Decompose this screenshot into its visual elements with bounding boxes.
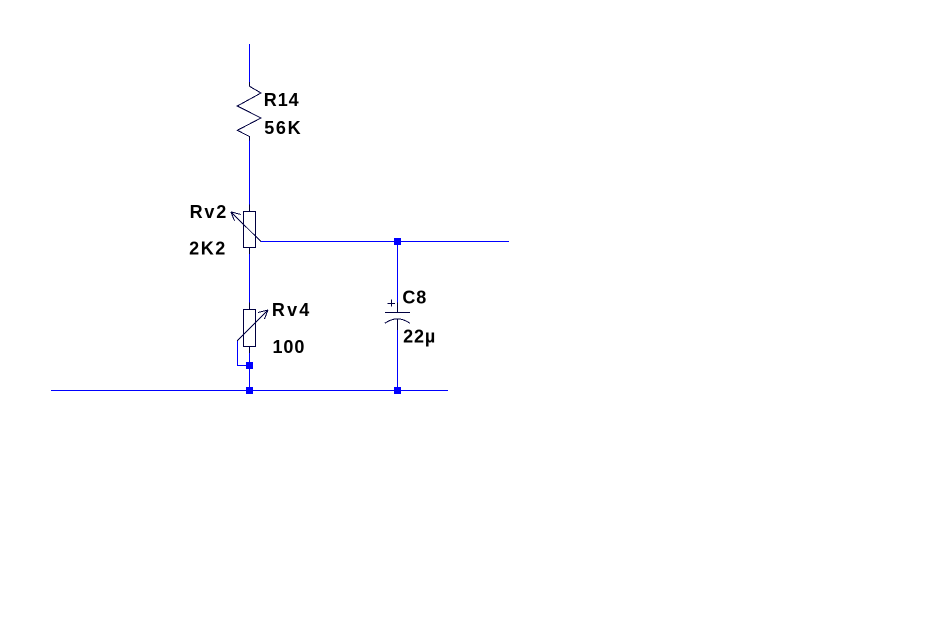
capacitor C8 bbox=[385, 300, 410, 331]
wire R14 to Rv2 bbox=[249, 141, 251, 206]
potentiometer Rv2 body bbox=[244, 212, 256, 248]
potentiometer Rv4 wiper arrow bbox=[237, 310, 268, 341]
wire wiper node horizontal bbox=[261, 241, 509, 243]
wire Rv4 bottom lead bbox=[249, 353, 251, 391]
potentiometer Rv2 wiper arrow bbox=[231, 212, 261, 242]
svg-text:R14: R14 bbox=[264, 90, 300, 110]
resistor R14 bbox=[237, 82, 261, 141]
svg-text:100: 100 bbox=[273, 337, 306, 357]
wire C8 bottom lead bbox=[397, 330, 399, 391]
node junction at C8 top bbox=[394, 238, 401, 245]
wire top feed bbox=[249, 44, 251, 83]
wire Rv2 navy leads bbox=[249, 205, 251, 255]
wire Rv2 to Rv4 bbox=[249, 254, 251, 303]
svg-text:2K2: 2K2 bbox=[189, 239, 227, 259]
wire Rv4 wiper to bottom terminal bbox=[238, 341, 250, 366]
node junction rail right bbox=[394, 387, 401, 394]
svg-text:C8: C8 bbox=[402, 288, 427, 308]
svg-text:22µ: 22µ bbox=[403, 326, 436, 346]
potentiometer Rv4 body bbox=[244, 310, 256, 347]
wire C8 top lead bbox=[397, 242, 399, 304]
node junction wiper tie bbox=[246, 362, 253, 369]
svg-text:Rv4: Rv4 bbox=[272, 300, 312, 320]
svg-text:56K: 56K bbox=[264, 118, 302, 138]
ground rail wire bbox=[51, 390, 448, 392]
node junction rail left bbox=[246, 387, 253, 394]
svg-text:Rv2: Rv2 bbox=[190, 202, 228, 222]
wire Rv4 navy leads bbox=[249, 303, 251, 354]
